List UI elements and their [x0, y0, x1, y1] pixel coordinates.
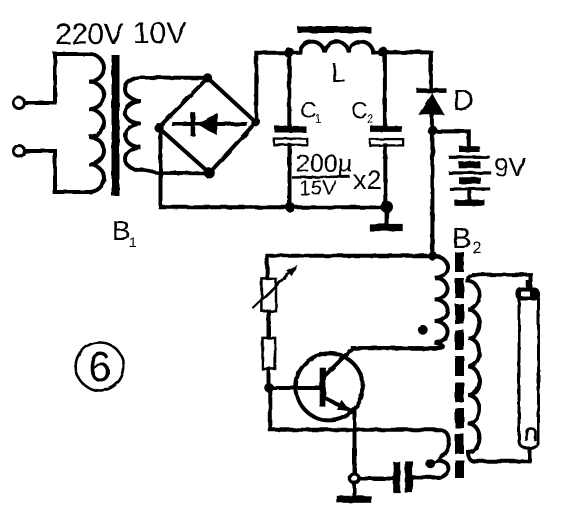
transformer B2 secondary winding	[468, 275, 530, 462]
wire terminal bottom to primary bottom	[25, 151, 89, 192]
bridge inner diode lead	[174, 122, 246, 126]
transformer B1 primary winding	[89, 54, 104, 192]
wire terminal top to primary top	[25, 54, 89, 103]
resistor R2 body	[263, 338, 276, 369]
svg-text:200µ: 200µ	[296, 150, 352, 178]
figure number 6	[76, 343, 124, 391]
capacitor C3 right plate	[405, 461, 413, 493]
node C1 bottom	[285, 202, 295, 212]
svg-text:10V: 10V	[133, 17, 186, 50]
wire base node to transformer B2 feedback winding	[270, 389, 449, 477]
node bridge right	[251, 118, 260, 127]
svg-text:x2: x2	[353, 165, 382, 195]
capacitor C3 left plate	[393, 462, 400, 493]
wire bridge right vertex up to L node	[256, 53, 300, 123]
node L left	[284, 47, 294, 57]
lamp top filament	[526, 280, 530, 290]
lamp top cap	[516, 288, 540, 301]
wire bridge left vertex down to bottom rail	[161, 128, 387, 208]
ground under C2	[385, 207, 389, 224]
svg-text:D: D	[453, 85, 474, 117]
node bridge top	[203, 73, 212, 82]
svg-text:220V: 220V	[55, 18, 124, 51]
wire emitter junction to ground	[353, 483, 357, 496]
wire lamp bottom stub	[528, 446, 532, 461]
node polarity dot feedback winding	[426, 459, 436, 469]
bridge inner diode triangle	[197, 113, 218, 136]
node L right	[377, 47, 387, 57]
node polarity dot top winding	[418, 325, 428, 335]
capacitor C2 stem bottom	[383, 145, 387, 207]
node bridge left	[154, 123, 163, 132]
transistor Q1 emitter lead	[326, 398, 354, 412]
svg-text:1: 1	[129, 234, 137, 250]
wire emitter junction to capacitor	[359, 477, 393, 481]
svg-text:B: B	[452, 223, 471, 255]
svg-text:L: L	[331, 58, 346, 88]
transformer B2 primary winding	[353, 256, 448, 348]
diode D stub	[430, 115, 434, 131]
svg-text:B: B	[112, 215, 131, 246]
capacitor C2 top plate	[370, 126, 402, 132]
node rail/B2 junction	[428, 251, 437, 260]
lamp tube	[519, 294, 539, 448]
capacitor C2 bottom plate	[370, 139, 403, 145]
svg-text:9V: 9V	[494, 152, 526, 182]
inductor L core bar	[298, 27, 372, 34]
wire secondary top to lamp	[473, 275, 531, 289]
transformer B1 core	[112, 55, 120, 196]
battery 9V plates	[459, 146, 480, 152]
capacitor C1 top plate	[275, 126, 307, 133]
svg-text:2: 2	[472, 238, 481, 257]
svg-text:1: 1	[315, 112, 322, 126]
transistor Q1 circle	[296, 353, 363, 420]
bridge rectifier diamond	[159, 78, 256, 173]
svg-text:15V: 15V	[299, 177, 336, 200]
capacitor C1 stem bottom	[288, 145, 292, 208]
variable resistor R1 arrow	[253, 271, 291, 308]
svg-text:2: 2	[367, 112, 374, 126]
node C2 bottom	[381, 201, 393, 213]
inductor L winding	[300, 42, 374, 53]
wire R1 to R2	[267, 311, 271, 338]
wire base node to transistor base	[269, 386, 320, 390]
bridge inner diode cathode bar	[191, 112, 196, 136]
node diode-battery junction	[428, 125, 438, 135]
transformer B1 secondary winding	[125, 78, 141, 171]
capacitor C2 stem top	[383, 52, 387, 126]
oscillator top rail	[267, 256, 432, 279]
wire secondary bottom to bridge bottom	[141, 170, 209, 173]
transistor Q1 emitter arrow	[337, 400, 351, 412]
wire R2 down to base node	[267, 369, 271, 386]
variable resistor R1 body	[262, 279, 276, 311]
input terminal bottom	[14, 146, 25, 157]
capacitor C1 stem top	[287, 53, 291, 127]
svg-text:6: 6	[88, 343, 111, 390]
capacitor C1 bottom plate	[274, 139, 307, 145]
node emitter junction	[350, 474, 359, 483]
wire emitter down	[353, 412, 357, 475]
transistor Q1 collector lead	[325, 348, 437, 375]
ground bottom	[337, 496, 371, 503]
diode D triangle	[418, 93, 444, 115]
transistor Q1 base bar	[320, 368, 326, 407]
lamp bottom filament	[527, 429, 536, 441]
wire secondary top to bridge top	[141, 76, 208, 80]
wire junction to battery	[432, 131, 468, 146]
wire main vertical diode junction down to oscillator rail	[430, 130, 434, 255]
transformer B2 core dashed	[455, 252, 464, 478]
input terminal top	[14, 98, 25, 109]
diode D cathode bar	[416, 88, 446, 93]
wire L right to diode corner	[373, 52, 431, 88]
node bridge bottom	[204, 168, 215, 179]
wire capacitor to feedback winding	[413, 475, 438, 479]
node base junction	[264, 383, 274, 393]
svg-text:C: C	[351, 97, 368, 123]
